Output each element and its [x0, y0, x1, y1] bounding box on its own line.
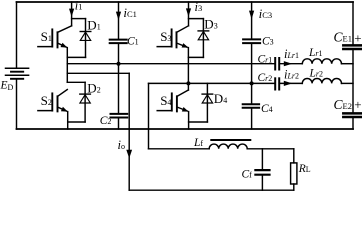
svg-text:iC3: iC3	[259, 6, 273, 21]
svg-text:D1: D1	[87, 18, 100, 33]
svg-text:iLr1: iLr1	[284, 47, 299, 61]
svg-text:i1: i1	[75, 0, 83, 12]
svg-text:C3: C3	[262, 36, 274, 48]
svg-text:i3: i3	[195, 0, 203, 14]
svg-text:ED: ED	[0, 79, 14, 92]
svg-text:Cf: Cf	[242, 169, 253, 181]
svg-text:iLr2: iLr2	[284, 68, 299, 82]
svg-text:D3: D3	[204, 17, 217, 32]
svg-text:C1: C1	[127, 36, 139, 48]
svg-text:S2: S2	[41, 93, 52, 108]
svg-text:Cr1: Cr1	[258, 54, 273, 66]
svg-text:Lr2: Lr2	[309, 68, 324, 80]
svg-text:CE1: CE1	[334, 30, 352, 45]
svg-text:D4: D4	[214, 91, 227, 106]
svg-text:io: io	[118, 138, 125, 152]
svg-text:RL: RL	[298, 163, 311, 175]
svg-text:Lf: Lf	[193, 137, 203, 149]
svg-text:CE2: CE2	[334, 97, 352, 112]
svg-text:S3: S3	[160, 29, 171, 44]
svg-text:iC1: iC1	[123, 5, 137, 20]
svg-text:S4: S4	[160, 93, 171, 108]
svg-text:+: +	[354, 31, 361, 46]
svg-text:C2: C2	[100, 115, 112, 127]
svg-text:Lr1: Lr1	[308, 47, 323, 59]
svg-text:D2: D2	[87, 81, 100, 96]
svg-text:S1: S1	[41, 29, 52, 44]
svg-text:+: +	[354, 97, 361, 112]
svg-text:Cr2: Cr2	[258, 72, 273, 84]
svg-text:C4: C4	[261, 103, 273, 115]
